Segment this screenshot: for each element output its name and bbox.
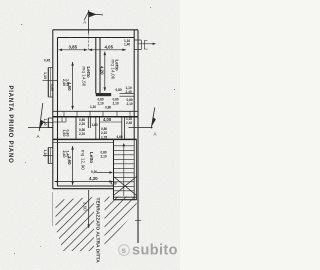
rotated window labels along left wall <box>43 72 70 158</box>
dim terrace vertical <box>88 190 90 228</box>
stair entry arrow <box>97 172 112 174</box>
wall mid B <box>53 138 137 140</box>
wall bottom inner <box>57 185 114 187</box>
terrace left faint edge <box>52 192 54 226</box>
stair bottom wall <box>114 196 137 198</box>
wall left inner <box>57 38 59 187</box>
stair arrow head <box>122 143 125 146</box>
watermark subito <box>119 243 178 259</box>
wall top outer <box>53 29 138 31</box>
terrace right wall end tick <box>135 220 141 222</box>
window right wall <box>134 39 141 41</box>
stair left wall <box>113 139 115 199</box>
wall bedroom divider vertical <box>95 38 97 94</box>
stair right wall <box>133 139 135 199</box>
wall top inner <box>58 37 135 39</box>
wall mid A lower line <box>53 116 138 118</box>
section marker right <box>129 127 153 129</box>
dim horizontal above bottom wall 4.30 <box>55 181 114 183</box>
noise specks <box>14 7 175 254</box>
wall corridor horizontal <box>96 93 111 96</box>
window bay 1 dim line <box>43 80 58 82</box>
paper background <box>0 0 180 270</box>
partition stub <box>87 117 89 128</box>
stair center rail <box>123 145 125 197</box>
terrace label TERRAZZATO ALTRA DITTA <box>95 197 104 260</box>
interior partition lines mid band <box>61 117 63 122</box>
window bay 2 left wall <box>47 148 49 164</box>
scan grain overlay <box>0 0 180 270</box>
tiny door/window labels horizontal <box>44 39 133 186</box>
stair break diagonal 1 <box>114 177 137 196</box>
dim vertical left room 4.50 <box>72 62 74 110</box>
wall right outer upper <box>137 30 139 243</box>
dim vertical lower room 3.60 <box>72 146 74 185</box>
hatch terrace right <box>105 197 137 248</box>
dim horizontal mid 1.20 <box>100 121 122 123</box>
window right arrow <box>139 43 154 45</box>
wall left outer <box>52 30 54 189</box>
wall mid A upper line <box>53 110 138 112</box>
section marker left <box>28 127 53 129</box>
stair treads <box>114 146 135 191</box>
wall mid A pochee ticks <box>64 111 130 117</box>
hatch terrace left <box>56 197 95 251</box>
window bay mid (bath) <box>47 118 49 128</box>
dim line top right segment <box>89 49 127 51</box>
wall bottom outer <box>53 188 114 190</box>
wall right inner upper <box>133 30 135 140</box>
dim line top left segment <box>59 49 88 51</box>
section marker top <box>88 10 90 33</box>
dim vertical right room 4.20 <box>104 52 106 92</box>
window bay 1 left wall <box>47 68 49 98</box>
stair break diagonal 2 <box>114 177 137 196</box>
